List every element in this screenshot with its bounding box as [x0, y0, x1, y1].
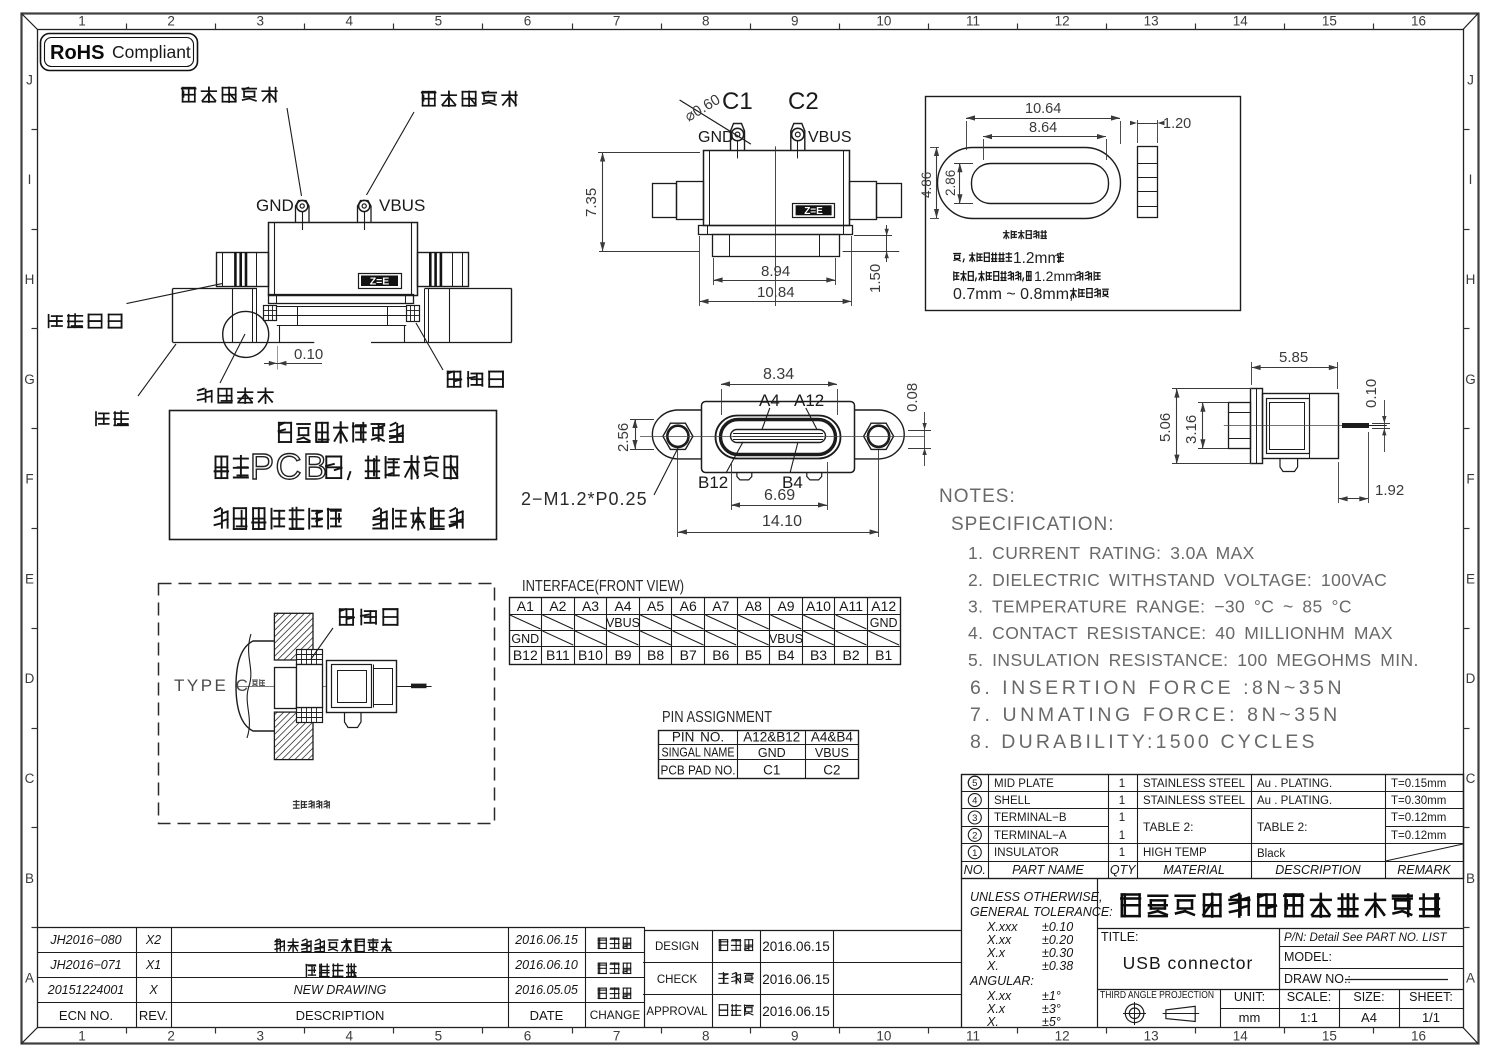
dimension 5.06: [1157, 389, 1252, 464]
svg-text:Z=E: Z=E: [370, 276, 390, 288]
svg-text:0.08: 0.08: [904, 383, 921, 412]
svg-text:SHEET:: SHEET:: [1409, 990, 1453, 1004]
svg-text:A12: A12: [871, 598, 896, 614]
svg-text:A8: A8: [745, 598, 762, 614]
svg-text:±0.10: ±0.10: [1042, 920, 1073, 934]
svg-text:1: 1: [1119, 847, 1125, 859]
assembly bottom tab: [345, 712, 362, 727]
svg-text:A4: A4: [614, 598, 631, 614]
svg-text:Compliant: Compliant: [112, 42, 191, 62]
svg-text:2−M1.2*P0.25: 2−M1.2*P0.25: [521, 489, 648, 509]
svg-text:2016.06.15: 2016.06.15: [514, 933, 578, 947]
svg-text:A11: A11: [839, 598, 863, 614]
right view: body: [1263, 393, 1339, 459]
right view: mating boss: [1229, 403, 1251, 449]
front view: body outline: [704, 150, 850, 225]
svg-text:REMARK: REMARK: [1397, 863, 1451, 877]
svg-text:Au . PLATING.: Au . PLATING.: [1257, 778, 1332, 790]
right view: bottom tab: [1280, 459, 1298, 472]
title label and value: [1101, 930, 1253, 973]
svg-text:A4: A4: [759, 391, 780, 410]
face view: tongue: [731, 430, 826, 443]
svg-text:VBUS: VBUS: [769, 632, 803, 646]
company name: [1121, 894, 1439, 917]
side view: lower recess outline: [262, 325, 420, 342]
svg-text:B3: B3: [810, 647, 827, 663]
leader line to GND pin: [287, 108, 302, 196]
dimension 7.35: [583, 153, 700, 252]
interface pin table: [509, 597, 901, 665]
svg-text:6.69: 6.69: [764, 487, 795, 504]
dimension 0.10 right view: [1363, 379, 1390, 452]
svg-text:P/N: Detail See PART NO. L: P/N: Detail See PART NO. LIST: [1284, 932, 1448, 944]
svg-text:QTY: QTY: [1110, 863, 1137, 877]
dimension 0.08: [904, 383, 931, 466]
svg-text:1.50: 1.50: [867, 264, 884, 293]
svg-text:X: X: [148, 983, 158, 997]
svg-text:±5°: ±5°: [1042, 1015, 1061, 1029]
svg-text:6: 6: [524, 14, 532, 29]
seal ring side strip: [1137, 147, 1158, 218]
svg-text:SHELL: SHELL: [994, 795, 1031, 807]
svg-text:E: E: [25, 571, 34, 586]
svg-text:GND: GND: [511, 632, 539, 646]
svg-text:1: 1: [972, 848, 977, 859]
svg-text:T=0.12mm: T=0.12mm: [1391, 812, 1446, 824]
svg-text:14: 14: [1233, 14, 1249, 29]
svg-text:13: 13: [1144, 14, 1159, 29]
svg-text:SCALE:: SCALE:: [1287, 990, 1331, 1004]
front view: pin C2 eyelet: [791, 124, 805, 159]
svg-text:C: C: [1466, 771, 1476, 786]
label A4: [759, 391, 780, 430]
svg-text:10: 10: [876, 14, 891, 29]
svg-text:4: 4: [346, 14, 354, 29]
svg-text:PART NAME: PART NAME: [1012, 863, 1084, 877]
svg-text:1.2mm: 1.2mm: [1013, 250, 1060, 267]
svg-text:±0.30: ±0.30: [1042, 946, 1073, 960]
svg-text:7: 7: [613, 1029, 621, 1044]
svg-text:E: E: [1466, 571, 1475, 586]
svg-text:STAINLESS STEEL: STAINLESS STEEL: [1143, 778, 1246, 790]
front view: right wing: [850, 182, 902, 220]
svg-text:X.xx: X.xx: [986, 933, 1012, 947]
svg-text:10: 10: [876, 1029, 891, 1044]
svg-text:ECN NO.: ECN NO.: [59, 1008, 113, 1023]
svg-text:2016.06.10: 2016.06.10: [514, 958, 578, 972]
svg-text:2.86: 2.86: [943, 170, 958, 196]
svg-text:2016.06.15: 2016.06.15: [762, 1004, 830, 1019]
svg-text:A9: A9: [777, 598, 794, 614]
dimension 2.86: [943, 163, 973, 203]
tolerance notes: [969, 890, 1113, 1029]
front view: bottom plate: [699, 226, 853, 235]
label mifengquan (seal ring) side view: [416, 323, 503, 387]
label waike (shell): [96, 344, 176, 425]
seal note line 1: [954, 250, 1064, 267]
svg-text:G: G: [1465, 372, 1476, 387]
svg-text:1: 1: [1119, 778, 1125, 790]
unit scale size sheet labels: [1234, 990, 1453, 1025]
parts list table: [961, 774, 1464, 879]
svg-text:DESIGN: DESIGN: [655, 941, 699, 953]
svg-text:20151224001: 20151224001: [47, 983, 124, 997]
svg-text:2. DIELECTRIC WITHSTAND VOLTAG: 2. DIELECTRIC WITHSTAND VOLTAGE: 100VAC: [968, 570, 1387, 590]
svg-text:9: 9: [791, 14, 799, 29]
svg-text:DESCRIPTION: DESCRIPTION: [1275, 863, 1361, 877]
dimension 1.20: [1130, 116, 1191, 143]
svg-text:2016.05.05: 2016.05.05: [514, 983, 578, 997]
signoff DESIGN row: [655, 939, 830, 954]
svg-text:TERMINAL−A: TERMINAL−A: [994, 830, 1067, 842]
svg-text:mm: mm: [1239, 1010, 1261, 1025]
face view: left mounting ear: [652, 410, 702, 459]
svg-text:Au . PLATING.: Au . PLATING.: [1257, 795, 1332, 807]
svg-text:THIRD ANGLE PROJECTION: THIRD ANGLE PROJECTION: [1100, 990, 1214, 1001]
svg-text:X.x: X.x: [986, 1002, 1006, 1016]
parts row 5 MID PLATE: [38, 776, 1464, 1029]
svg-text:15: 15: [1322, 1029, 1337, 1044]
svg-text:PCB PAD NO.: PCB PAD NO.: [661, 763, 736, 778]
front view: center axis line: [775, 146, 777, 306]
svg-text:10.84: 10.84: [757, 284, 795, 301]
svg-text:7. UNMATING FORCE: 8N~35N: 7. UNMATING FORCE: 8N~35N: [970, 704, 1341, 726]
svg-text:T=0.12mm: T=0.12mm: [1391, 830, 1446, 842]
face view: bottom lead left: [737, 473, 752, 480]
dimension 5.85: [1252, 349, 1338, 389]
svg-text:GND: GND: [256, 196, 294, 215]
svg-text:X1: X1: [145, 958, 161, 972]
svg-text:SIZE:: SIZE:: [1353, 990, 1384, 1004]
svg-text:UNIT:: UNIT:: [1234, 990, 1265, 1004]
svg-text:3. TEMPERATURE RANGE: −30 °C ~: 3. TEMPERATURE RANGE: −30 °C ~ 85 °C: [968, 597, 1352, 617]
dimension 1.50: [843, 225, 900, 293]
svg-text:J: J: [1467, 72, 1474, 87]
face view: left hex nut and screw hole: [663, 423, 693, 449]
svg-text:VBUS: VBUS: [606, 616, 640, 630]
side view: right shell base block: [420, 289, 512, 343]
side view: solder pin VBUS with eyelet: [358, 200, 372, 230]
svg-text:2: 2: [972, 830, 977, 841]
assembly centerline: [238, 686, 432, 688]
svg-text:7: 7: [613, 14, 621, 29]
side view: seal retainer plate: [269, 294, 414, 304]
type-c plug boot: [236, 634, 274, 738]
seal ring inner stadium: [972, 164, 1109, 204]
side view: seal ring left hatch block: [264, 305, 277, 321]
svg-text:1/1: 1/1: [1422, 1010, 1440, 1025]
type-c plug barrel: [275, 668, 297, 709]
svg-text:ANGULAR:: ANGULAR:: [969, 974, 1034, 988]
dimension 10.84: [700, 236, 852, 306]
svg-text:SINGAL NAME: SINGAL NAME: [662, 745, 735, 760]
svg-text:USB connector: USB connector: [1123, 953, 1254, 973]
seal note line 2: [954, 268, 1100, 284]
front view: left wing: [653, 182, 704, 220]
svg-text:TERMINAL−B: TERMINAL−B: [994, 812, 1067, 824]
side view: gasket section lines: [277, 306, 407, 325]
svg-text:B: B: [1466, 871, 1475, 886]
svg-text:1.2mm: 1.2mm: [1034, 268, 1077, 284]
svg-text:16: 16: [1411, 14, 1426, 29]
dimension 0.10 (side view): [264, 346, 323, 370]
svg-text:D: D: [25, 671, 35, 686]
svg-text:A: A: [1466, 971, 1475, 986]
svg-text:A3: A3: [582, 598, 599, 614]
svg-text:I: I: [1469, 172, 1473, 187]
svg-text:NOTES:: NOTES:: [939, 486, 1016, 507]
svg-text:A5: A5: [647, 598, 664, 614]
svg-text:TITLE:: TITLE:: [1101, 930, 1139, 944]
front view: pin C1 eyelet: [731, 124, 745, 159]
svg-text:STAINLESS STEEL: STAINLESS STEEL: [1143, 795, 1246, 807]
label luosi-guokong (screw hole): [198, 334, 273, 403]
svg-text:B9: B9: [614, 647, 631, 663]
svg-text:PIN ASSIGNMENT: PIN ASSIGNMENT: [662, 709, 772, 726]
svg-text:UNLESS OTHERWISE,: UNLESS OTHERWISE,: [970, 890, 1102, 904]
svg-text:3: 3: [256, 1029, 264, 1044]
parts row 2 TERMINAL-A: [968, 828, 1446, 842]
svg-text:F: F: [25, 472, 33, 487]
svg-text:RoHS: RoHS: [50, 42, 104, 64]
svg-text:REV.: REV.: [139, 1008, 168, 1023]
svg-text:C2: C2: [788, 88, 819, 115]
svg-text:±0.20: ±0.20: [1042, 933, 1073, 947]
svg-text:12: 12: [1055, 1029, 1070, 1044]
svg-text:3: 3: [972, 813, 977, 824]
svg-text:A2: A2: [549, 598, 566, 614]
svg-text:DRAW NO.:: DRAW NO.:: [1284, 972, 1351, 986]
signoff block grid: [643, 930, 961, 1028]
svg-text:1.92: 1.92: [1375, 482, 1404, 499]
svg-text:X.xxx: X.xxx: [986, 920, 1018, 934]
svg-text:A6: A6: [680, 598, 697, 614]
svg-text:14.10: 14.10: [762, 513, 802, 530]
dimension 4.86: [919, 147, 939, 219]
svg-text:MATERIAL: MATERIAL: [1163, 863, 1225, 877]
svg-text:5: 5: [435, 1029, 443, 1044]
seal ring in wall top tab: [297, 650, 323, 665]
right view: flange: [1251, 389, 1263, 464]
svg-text:GND: GND: [698, 129, 734, 146]
seal ring in wall bottom tab: [297, 708, 323, 723]
svg-text:G: G: [24, 372, 35, 387]
svg-text:T=0.30mm: T=0.30mm: [1391, 795, 1446, 807]
thread callout 2-M1.2*P0.25: [521, 448, 678, 509]
svg-text:1. CURRENT RATING: 3.0A MAX: 1. CURRENT RATING: 3.0A MAX: [968, 543, 1255, 563]
svg-text:0.10: 0.10: [1363, 379, 1380, 408]
seal note line 3: [953, 286, 1108, 303]
assembly solder pin: [397, 684, 431, 689]
svg-text:±0.38: ±0.38: [1042, 959, 1073, 973]
panel wall hatched upper: [274, 613, 313, 660]
assembly demo dashed box: [159, 584, 495, 824]
svg-text:4: 4: [972, 796, 977, 807]
parts row 1 INSULATOR: [968, 844, 1463, 861]
caption seal ring size: [1004, 231, 1047, 239]
svg-text:T=0.15mm: T=0.15mm: [1391, 778, 1446, 790]
face view: right mounting ear: [855, 410, 905, 459]
svg-text:J: J: [26, 72, 33, 87]
svg-text:5: 5: [435, 14, 443, 29]
svg-text:C1: C1: [722, 88, 753, 115]
seal ring detail box: [926, 97, 1241, 311]
svg-text:GENERAL TOLERANCE:: GENERAL TOLERANCE:: [970, 905, 1113, 919]
face view: right hex nut and screw hole: [864, 423, 894, 449]
svg-text:F: F: [1466, 472, 1474, 487]
dimension 3.16: [1183, 403, 1229, 449]
svg-text:B11: B11: [546, 647, 570, 663]
svg-text:4: 4: [346, 1029, 354, 1044]
svg-text:A12&B12: A12&B12: [743, 730, 800, 745]
svg-text:B4: B4: [777, 647, 794, 663]
svg-text:8: 8: [702, 14, 710, 29]
face view: bottom lead right: [807, 473, 822, 480]
svg-text:B12: B12: [698, 473, 728, 492]
svg-text:12: 12: [1055, 14, 1070, 29]
svg-text:5.85: 5.85: [1279, 349, 1308, 366]
instruction line 2: [215, 446, 458, 487]
svg-text:0.7mm ~ 0.8mm,: 0.7mm ~ 0.8mm,: [953, 286, 1073, 303]
svg-text:2016.06.15: 2016.06.15: [762, 972, 830, 987]
svg-text:X.: X.: [986, 1015, 999, 1029]
revision row X1: [49, 958, 630, 977]
instruction text box: [170, 411, 497, 540]
seal ring outer stadium: [938, 148, 1121, 219]
svg-text:B6: B6: [712, 647, 729, 663]
svg-text:APPROVAL: APPROVAL: [646, 1006, 708, 1018]
instruction line 3: [215, 508, 463, 530]
front view: Z-E logo plate: [793, 204, 835, 218]
svg-text:6: 6: [524, 1029, 532, 1044]
svg-text:5: 5: [972, 778, 977, 789]
svg-text:NO.: NO.: [964, 863, 986, 877]
side view: right threaded wing (shell tapping): [418, 252, 469, 287]
svg-text:MODEL:: MODEL:: [1284, 950, 1332, 964]
front view: lower block: [713, 235, 840, 257]
svg-text:VBUS: VBUS: [379, 196, 425, 215]
parts merged TABLE 2 cells: [1143, 820, 1307, 834]
svg-text:GND: GND: [758, 746, 786, 760]
svg-text:±1°: ±1°: [1042, 989, 1061, 1003]
revision header row: [59, 1008, 640, 1023]
svg-text:Z=E: Z=E: [804, 206, 823, 217]
face view: body: [702, 402, 855, 473]
right view: centerline: [1224, 425, 1387, 427]
draw no row: [1284, 972, 1448, 986]
svg-text:B1: B1: [875, 647, 892, 663]
label dianzixian-hanjie right: [422, 91, 517, 106]
svg-text:PCB: PCB: [250, 446, 329, 487]
svg-text:±3°: ±3°: [1042, 1002, 1061, 1016]
svg-text:B12: B12: [513, 647, 538, 663]
svg-text:X.: X.: [986, 959, 999, 973]
svg-text:4. CONTACT RESISTANCE: 40 MILL: 4. CONTACT RESISTANCE: 40 MILLIONHM MAX: [968, 623, 1393, 643]
svg-text:DATE: DATE: [530, 1008, 564, 1023]
revision row X2: [49, 933, 630, 952]
svg-text:CHANGE: CHANGE: [590, 1008, 641, 1022]
diameter 0.60 callout: [680, 91, 751, 144]
svg-text:8.64: 8.64: [1029, 120, 1057, 136]
leader line to VBUS pin: [367, 112, 415, 195]
side view: screw through-hole circle: [223, 311, 269, 357]
signoff APPROVAL row: [646, 1004, 829, 1019]
svg-text:8.94: 8.94: [761, 263, 790, 280]
label dianzixian-hanjie left: [182, 87, 277, 102]
svg-text:HIGH TEMP: HIGH TEMP: [1143, 847, 1207, 859]
svg-text:8. DURABILITY:1500 CYCLES: 8. DURABILITY:1500 CYCLES: [970, 731, 1318, 753]
svg-text:TABLE 2:: TABLE 2:: [1257, 820, 1307, 834]
svg-text:1:1: 1:1: [1300, 1010, 1318, 1025]
svg-text:VBUS: VBUS: [808, 129, 852, 146]
svg-text:B2: B2: [843, 647, 860, 663]
label A12: [794, 391, 824, 429]
side view: left threaded wing (shell tapping): [217, 252, 269, 287]
svg-text:X2: X2: [145, 933, 161, 947]
face view: port opening inner thick: [721, 420, 836, 455]
parts header row: [964, 863, 1452, 877]
svg-text:11: 11: [966, 1029, 980, 1044]
face view: port opening outer: [716, 416, 841, 459]
revision table grid: [38, 927, 646, 1028]
svg-text:5. INSULATION RESISTANCE: 100: 5. INSULATION RESISTANCE: 100 MEGOHMS MI…: [968, 650, 1419, 670]
svg-text:INSULATOR: INSULATOR: [994, 847, 1059, 859]
svg-text:1: 1: [1119, 812, 1125, 824]
svg-text:I: I: [28, 172, 32, 187]
svg-text:VBUS: VBUS: [815, 746, 849, 760]
svg-text:A4&B4: A4&B4: [811, 730, 854, 745]
svg-text:C1: C1: [763, 763, 780, 778]
svg-text:1: 1: [1119, 795, 1125, 807]
svg-text:PIN NO.: PIN NO.: [672, 730, 724, 745]
svg-text:3: 3: [256, 14, 264, 29]
side view: left shell base block: [173, 289, 263, 343]
dimension 2.56: [615, 419, 654, 452]
svg-text:8: 8: [702, 1029, 710, 1044]
svg-text:1: 1: [78, 1029, 86, 1044]
side view: connector body: [269, 222, 418, 296]
svg-text:1: 1: [78, 14, 86, 29]
svg-text:JH2016−080: JH2016−080: [49, 933, 121, 947]
svg-text:2: 2: [167, 1029, 175, 1044]
svg-text:TABLE 2:: TABLE 2:: [1143, 820, 1193, 834]
dimension 1.92: [1339, 432, 1405, 503]
svg-text:DESCRIPTION: DESCRIPTION: [296, 1008, 385, 1023]
svg-text:0.10: 0.10: [294, 346, 323, 363]
svg-text:B: B: [25, 871, 34, 886]
svg-text:1: 1: [1119, 830, 1125, 842]
svg-text:B7: B7: [680, 647, 697, 663]
panel wall hatched lower: [274, 712, 313, 760]
svg-text:13: 13: [1144, 1029, 1159, 1044]
svg-text:B5: B5: [745, 647, 762, 663]
svg-text:JH2016−071: JH2016−071: [49, 958, 121, 972]
svg-text:3.16: 3.16: [1183, 415, 1200, 444]
svg-text:TYPE C: TYPE C: [174, 676, 250, 695]
svg-text:4.86: 4.86: [919, 172, 934, 198]
svg-text:14: 14: [1233, 1029, 1249, 1044]
parts row 5 MID PLATE: [968, 776, 1446, 790]
svg-text:C: C: [25, 771, 35, 786]
seal nut body: [297, 665, 323, 708]
svg-text:5.06: 5.06: [1157, 413, 1174, 442]
side view: solder pin GND with eyelet: [296, 200, 310, 230]
svg-text:8.34: 8.34: [763, 366, 794, 383]
svg-text:INTERFACE(FRONT VIEW): INTERFACE(FRONT VIEW): [522, 578, 684, 595]
dimension 10.64: [966, 101, 1121, 150]
svg-text:11: 11: [966, 14, 980, 29]
svg-text:B8: B8: [647, 647, 664, 663]
